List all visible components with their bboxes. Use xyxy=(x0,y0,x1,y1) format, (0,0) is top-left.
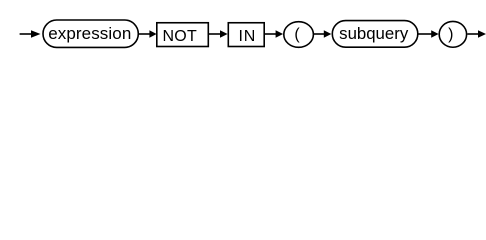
railroad syntax diagram: expression NOT IN ( subquery ) xyxy=(0,0,486,58)
svg-text:subquery: subquery xyxy=(339,24,409,43)
arrowhead A5 xyxy=(324,30,332,37)
wire oval1 to NOT xyxy=(139,33,151,35)
terminal stadium subquery xyxy=(332,21,418,48)
svg-text:expression: expression xyxy=(48,24,131,43)
wire end segment xyxy=(467,33,479,35)
keyword box NOT xyxy=(157,23,209,47)
svg-text:NOT: NOT xyxy=(162,28,197,45)
arrowhead A4 xyxy=(276,30,284,37)
terminal stadium expression xyxy=(43,20,138,47)
svg-text:(: ( xyxy=(294,26,300,43)
wire open-paren to subquery xyxy=(314,33,325,35)
svg-text:IN: IN xyxy=(238,28,256,45)
wire subquery to close-paren xyxy=(419,33,433,35)
arrowhead A2 xyxy=(149,30,156,37)
arrowhead A3 xyxy=(220,30,228,37)
wire start segment xyxy=(20,33,32,35)
arrowhead A7 end xyxy=(478,30,486,37)
terminal circle open-paren xyxy=(284,22,314,48)
arrowhead A6 xyxy=(431,30,438,37)
terminal circle close-paren xyxy=(439,21,466,47)
wire NOT to IN xyxy=(209,33,221,35)
wire IN to open-paren xyxy=(265,33,277,35)
svg-text:): ) xyxy=(448,26,453,43)
arrowhead A1 xyxy=(31,30,41,37)
keyword box IN xyxy=(228,23,264,47)
